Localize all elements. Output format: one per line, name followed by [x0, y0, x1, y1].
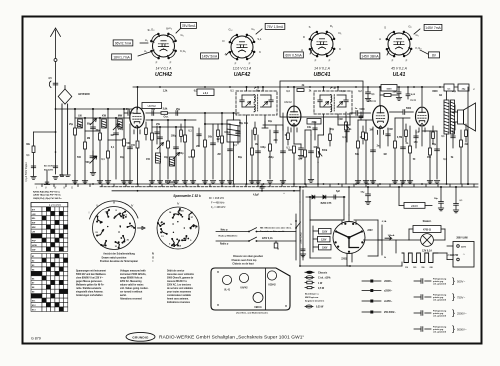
volume potentiometer P1 — [317, 135, 328, 185]
antenna coupling coil L1 — [58, 86, 90, 177]
svg-text:18V/1,7mA: 18V/1,7mA — [113, 55, 130, 59]
svg-text:S: S — [309, 25, 311, 29]
title banner — [126, 332, 304, 341]
IF stage shield can — [280, 81, 363, 117]
svg-text:125: 125 — [413, 267, 416, 269]
svg-text:Radio ⌀: Radio ⌀ — [220, 243, 229, 246]
input filter wiring — [75, 109, 130, 184]
tube U3 UBC41 top view — [301, 24, 341, 78]
tube U2 UAF42 top view — [222, 27, 262, 78]
svg-text:L(KW) TA(L) U(a) PhF TW Ou: L(KW) TA(L) U(a) PhF TW Ou — [33, 194, 62, 197]
U4 cathode voltage label — [420, 50, 440, 58]
svg-text:D: D — [303, 35, 305, 39]
ground rail junctions — [42, 183, 474, 187]
selector top feed — [348, 186, 350, 215]
svg-text:14 V 0,1 A: 14 V 0,1 A — [314, 67, 330, 71]
svg-text:4,7k: 4,7k — [77, 125, 82, 128]
svg-text:G₁: G₁ — [180, 33, 183, 37]
svg-text:78V/3mA: 78V/3mA — [182, 24, 196, 28]
svg-text:1M: 1M — [255, 143, 258, 146]
svg-text:Ansicht der Schalterstellung: Ansicht der Schalterstellung — [103, 253, 135, 256]
mains switch S3 — [216, 228, 296, 248]
svg-text:RADIO-WERKE GmbH Schaltplan „: RADIO-WERKE GmbH Schaltplan „Sechskreis … — [159, 335, 304, 341]
svg-text:100mA: 100mA — [388, 234, 395, 237]
svg-text:4,5μF: 4,5μF — [253, 194, 260, 197]
svg-text:750V∼: 750V∼ — [457, 295, 466, 299]
tube U1 UCH42 top view — [144, 26, 186, 78]
svg-text:A₂: A₂ — [145, 38, 148, 42]
svg-text:UCH42: UCH42 — [155, 72, 172, 78]
svg-text:condensateur variable: condensateur variable — [167, 294, 192, 297]
legend resistor symbols — [305, 271, 331, 290]
svg-text:UAF42: UAF42 — [234, 72, 251, 78]
svg-text:A: A — [225, 52, 227, 56]
IF transformer F II — [314, 86, 352, 135]
svg-text:110: 110 — [405, 267, 408, 269]
IF transformer F I — [236, 86, 283, 184]
svg-text:4700 Ω: 4700 Ω — [423, 229, 431, 232]
svg-text:1M: 1M — [110, 134, 113, 137]
svg-text:Anderungen vorbehalten: Anderungen vorbehalten — [76, 294, 103, 297]
oscillator coil box L5 — [227, 112, 249, 184]
svg-text:150p: 150p — [118, 128, 124, 131]
heater dropping resistor R30 — [402, 253, 459, 269]
AVC line (dashed) — [100, 186, 307, 188]
selector extra labels — [378, 220, 387, 259]
svg-text:volt. Values going conden-: volt. Values going conden- — [120, 287, 149, 290]
V3 grid coupling capacitor C20 — [338, 109, 371, 125]
svg-text:5000: 5000 — [406, 108, 412, 110]
svg-text:UBC41: UBC41 — [313, 72, 330, 78]
svg-text:100p: 100p — [224, 131, 230, 134]
note paragraph French — [167, 270, 195, 305]
svg-text:F: F — [406, 59, 408, 63]
U1 screen voltage label — [113, 40, 148, 46]
output tube V4 UL41 — [410, 86, 429, 146]
coupling note — [173, 194, 201, 198]
svg-text:}: } — [452, 308, 455, 318]
svg-text:0,5M: 0,5M — [337, 119, 342, 121]
svg-text:8000: 8000 — [432, 91, 438, 93]
svg-text:sek. gewickelt: sek. gewickelt — [433, 298, 446, 301]
svg-text:110V: 110V — [322, 232, 328, 234]
svg-text:F: F — [249, 62, 251, 66]
antenna lower wiring — [53, 108, 58, 179]
scale lamp La1 — [409, 221, 469, 253]
chassis note — [236, 312, 269, 315]
svg-text:5000V∼: 5000V∼ — [457, 327, 468, 331]
svg-text:Angaben beachten: Angaben beachten — [305, 299, 325, 302]
antenna — [48, 28, 60, 109]
svg-text:sek. gewickelt: sek. gewickelt — [433, 314, 446, 317]
svg-text:240V: 240V — [411, 204, 418, 208]
svg-text:Spannweite Σ 52 k: Spannweite Σ 52 k — [173, 194, 201, 198]
svg-text:2M: 2M — [217, 154, 220, 156]
svg-text:145V 38mA: 145V 38mA — [361, 54, 379, 58]
svg-text:Chassis: Chassis — [318, 272, 328, 275]
svg-text:145V 7mA: 145V 7mA — [425, 26, 441, 30]
svg-text:L/M: L/M — [32, 214, 36, 216]
series capacitor C14 — [176, 108, 181, 115]
svg-text:45 V 0,1 A: 45 V 0,1 A — [391, 67, 407, 71]
svg-text:3Ω: 3Ω — [464, 144, 467, 146]
svg-text:5000 Ω/V und den Meßberei-: 5000 Ω/V und den Meßberei- — [76, 273, 106, 276]
svg-text:de service sont valables: de service sont valables — [167, 287, 194, 290]
AF tube V3 UBC41 — [368, 86, 388, 148]
svg-text:pour toutes moyennes: pour toutes moyennes — [167, 291, 192, 294]
svg-text:Buntkörper u.: Buntkörper u. — [305, 293, 319, 296]
svg-text:A: A — [379, 37, 381, 41]
svg-text:250p: 250p — [268, 157, 274, 159]
coupling cap label — [283, 192, 285, 195]
svg-text:20p: 20p — [330, 129, 335, 131]
svg-text:Drawn switch position: Drawn switch position — [102, 256, 127, 259]
svg-text:220V 0,1A: 220V 0,1A — [262, 237, 273, 240]
svg-text:50μ: 50μ — [361, 192, 365, 194]
grid line left — [56, 108, 134, 110]
svg-text:80p: 80p — [238, 157, 243, 159]
svg-text:14 V 0,1 A: 14 V 0,1 A — [156, 67, 172, 71]
svg-text:G₂: G₂ — [408, 25, 411, 29]
svg-text:Osz.: Osz. — [163, 116, 168, 119]
V4 cathode and grid components — [392, 118, 445, 184]
svg-text:ser turned in without: ser turned in without — [120, 291, 143, 294]
svg-text:250-500V–: 250-500V– — [384, 311, 396, 314]
svg-text:25k: 25k — [156, 123, 161, 126]
mid band auxiliary components — [145, 122, 468, 148]
decoupling capacitor C26 — [396, 86, 401, 100]
svg-text:}: } — [452, 276, 455, 286]
svg-text:G₃: G₃ — [251, 27, 254, 31]
tone corrector box — [381, 85, 397, 92]
svg-text:F: F — [156, 61, 158, 65]
svg-text:MM Papierca.: MM Papierca. — [305, 297, 319, 299]
svg-text:F: F — [392, 59, 394, 63]
HT feed wire — [467, 87, 469, 185]
svg-text:S,1: S,1 — [257, 37, 262, 41]
voltage selector S4 — [313, 215, 373, 261]
V2 grid wire — [263, 125, 283, 130]
dropper wires — [398, 186, 432, 205]
mixer tube V1 UCH42 — [130, 86, 162, 140]
heater bus line — [112, 187, 300, 192]
svg-text:UL41: UL41 — [410, 99, 417, 102]
svg-text:values valid for mains: values valid for mains — [120, 284, 144, 287]
V1 grid capacitor C11 — [124, 109, 134, 115]
svg-text:4Ω: 4Ω — [439, 94, 442, 97]
HT decoupling C25 — [365, 87, 375, 101]
svg-text:IV: IV — [63, 186, 66, 190]
dropper label box — [404, 203, 425, 209]
left vertical wire — [44, 170, 49, 185]
V1 cathode resistor R5 — [131, 141, 139, 184]
svg-text:IV: IV — [131, 204, 134, 208]
wafer switch S1 front view — [89, 201, 145, 250]
svg-text:Netz ⌀: Netz ⌀ — [221, 229, 228, 232]
mains on-off switch S5 — [290, 214, 300, 260]
svg-text:Spannungen mit Instrument: Spannungen mit Instrument — [76, 270, 106, 273]
svg-text:96V/2,7mA: 96V/2,7mA — [115, 41, 132, 45]
svg-text:NB: GW-Geräte stets über ehem.: NB: GW-Geräte stets über ehem. — [260, 227, 292, 230]
band switch contact table — [31, 203, 68, 312]
svg-text:1,2k: 1,2k — [163, 91, 168, 93]
svg-text:220V AC. Measuring: 220V AC. Measuring — [120, 280, 142, 283]
V2 grid circuit components — [249, 130, 290, 184]
svg-text:D: D — [222, 39, 224, 43]
U2 diode voltage label — [201, 52, 229, 59]
svg-text:0,7M: 0,7M — [397, 136, 402, 139]
svg-text:O: O — [71, 186, 73, 190]
svg-text:chen 800/80 V bei 220 V∼: chen 800/80 V bei 220 V∼ — [76, 278, 103, 280]
loudspeaker LS1 — [453, 103, 476, 131]
svg-text:Châssis vu de haut: Châssis vu de haut — [232, 263, 253, 266]
svg-text:eingestellt ohne Antenne.: eingestellt ohne Antenne. — [76, 291, 104, 294]
svg-text:1M: 1M — [383, 154, 386, 156]
svg-text:UL 41: UL 41 — [224, 289, 231, 292]
tuning capacitor C10 — [86, 151, 97, 175]
svg-text:mesure 800-80 V à: mesure 800-80 V à — [167, 280, 187, 283]
anode label box — [197, 89, 214, 96]
svg-text:K,G₃: K,G₃ — [416, 46, 422, 50]
svg-text:30p: 30p — [95, 129, 100, 132]
svg-text:UAF42: UAF42 — [284, 101, 292, 104]
svg-text:0,25 W: 0,25 W — [316, 307, 324, 309]
svg-text:UBC41: UBC41 — [254, 306, 262, 309]
svg-text:30p: 30p — [268, 121, 273, 123]
detector diode load parts — [307, 108, 363, 124]
svg-text:1 2 3 4 5 6: 1 2 3 4 5 6 — [49, 204, 61, 207]
svg-text:150V: 150V — [322, 248, 328, 250]
svg-text:0,1μF 500V Papier: 0,1μF 500V Papier — [25, 162, 28, 181]
filter capacitor C31 — [434, 186, 444, 211]
svg-text:ohne Netz- und Skalenbeleucht.: ohne Netz- und Skalenbeleucht. — [236, 312, 269, 315]
power left rotated note — [301, 232, 303, 243]
power section left wires — [299, 202, 351, 267]
svg-text:58p: 58p — [239, 123, 244, 125]
svg-text:300k: 300k — [311, 122, 317, 124]
svg-text:30p: 30p — [120, 157, 125, 159]
svg-text:220: 220 — [430, 267, 433, 269]
V1 anode coupling wire — [146, 112, 239, 114]
svg-text:IV: IV — [177, 202, 180, 206]
input filter components — [72, 108, 132, 184]
svg-text:≥125V–: ≥125V– — [384, 300, 393, 303]
rectifier feed wires — [299, 186, 344, 260]
U4 screen voltage label — [360, 51, 389, 59]
svg-text:reihe. Stattdessenwerte: reihe. Stattdessenwerte — [76, 287, 102, 290]
decoupling capacitor C27 — [406, 86, 416, 99]
svg-text:0,1A: 0,1A — [382, 220, 387, 223]
screen feed resistor R22 — [380, 92, 398, 97]
HT rail junction dots — [159, 86, 441, 88]
svg-text:145V 5mA: 145V 5mA — [202, 54, 218, 58]
svg-text:D₁: D₁ — [339, 31, 342, 35]
svg-text:50p: 50p — [126, 109, 131, 111]
svg-text:a 0,1: a 0,1 — [203, 93, 209, 95]
svg-text:G,₂: G,₂ — [228, 28, 232, 32]
svg-text:0,5 W: 0,5 W — [318, 288, 325, 290]
svg-text:230V 120Ω: 230V 120Ω — [301, 232, 303, 243]
svg-text:25p: 25p — [462, 88, 466, 90]
svg-text:GW(M) Ph(L) D(a) PhC AM Zu: GW(M) Ph(L) D(a) PhC AM Zu — [33, 197, 62, 200]
svg-text:GRUNDIG: GRUNDIG — [132, 335, 149, 339]
svg-text:180p: 180p — [171, 135, 177, 138]
wafer switch S2 rear view — [157, 202, 199, 250]
svg-text:Chassis von oben gesehen: Chassis von oben gesehen — [233, 256, 264, 258]
mains bus upper — [300, 186, 478, 188]
svg-text:220Ω: 220Ω — [341, 259, 347, 261]
mains plug box — [447, 242, 474, 268]
svg-text:G 879: G 879 — [31, 337, 41, 341]
svg-text:500k: 500k — [322, 149, 328, 152]
V4 coupling capacitor C22 — [390, 108, 414, 114]
V3 grid leak components — [355, 120, 380, 184]
U1 anode voltage label — [176, 22, 196, 33]
svg-text:5μF: 5μF — [336, 191, 341, 193]
svg-text:220V AC. Les tensions: 220V AC. Les tensions — [167, 284, 192, 287]
svg-text:1M: 1M — [369, 129, 372, 132]
chassis caption — [232, 256, 264, 266]
svg-text:Voltages measured with: Voltages measured with — [120, 270, 146, 273]
svg-text:5000: 5000 — [387, 89, 393, 91]
svg-text:75V 1,5mA: 75V 1,5mA — [267, 25, 284, 29]
input filter value labels — [69, 115, 131, 150]
filter capacitor C32 — [453, 186, 463, 213]
svg-text:Σ 4,5kΩC: Σ 4,5kΩC — [165, 181, 175, 184]
heater bus capacitor C35 — [253, 184, 264, 197]
svg-text:50μ: 50μ — [434, 198, 438, 200]
svg-text:C tol. ±10%: C tol. ±10% — [318, 277, 331, 280]
svg-text:III: III — [113, 201, 115, 205]
svg-text:Indications réservées: Indications réservées — [167, 301, 191, 304]
note paragraph English — [120, 270, 149, 301]
svg-text:Bei 110V: Bei 110V — [44, 166, 54, 168]
svg-text:B250 C75: B250 C75 — [321, 202, 332, 205]
svg-text:O: O — [152, 257, 154, 259]
svg-text:G₁: G₁ — [415, 33, 418, 37]
selector to lamp wire — [364, 234, 410, 240]
svg-text:ΣF = 468 kHz: ΣF = 468 kHz — [209, 197, 225, 200]
document number — [31, 337, 41, 341]
svg-text:}: } — [452, 292, 455, 302]
antenna shunt stack — [26, 131, 56, 179]
svg-text:MW: MW — [118, 115, 123, 118]
selector frame — [310, 220, 378, 258]
svg-text:UKW: UKW — [32, 245, 37, 247]
svg-text:ANT/FERR: ANT/FERR — [78, 93, 90, 96]
svg-text:5000: 5000 — [359, 109, 365, 111]
midband value labels — [60, 91, 457, 178]
tube U4 UL41 top view — [379, 25, 421, 79]
legend note — [305, 293, 325, 309]
negative feedback resistor R20 — [460, 130, 468, 184]
svg-text:sek. gewickelt: sek. gewickelt — [433, 330, 446, 333]
svg-text:40p: 40p — [164, 156, 169, 159]
left margin vertical note — [25, 162, 28, 181]
svg-text:GW: GW — [32, 249, 36, 251]
svg-text:MW: MW — [32, 227, 36, 229]
svg-text:F₂ = 468 kHz: F₂ = 468 kHz — [211, 206, 226, 209]
svg-text:150: 150 — [421, 267, 424, 269]
svg-text:Position dessinée de l'interru: Position dessinée de l'interrupteur — [100, 260, 138, 263]
output fuse boxes — [444, 84, 475, 91]
oscillator coil and components — [146, 116, 201, 185]
svg-text:220V: 220V — [461, 247, 467, 249]
svg-text:F = 468 kHz: F = 468 kHz — [211, 202, 225, 205]
svg-text:50p: 50p — [180, 153, 185, 155]
legend voltage column — [362, 280, 396, 315]
svg-text:58p: 58p — [151, 108, 156, 111]
tone control pot P2 — [337, 112, 349, 184]
HT decoupling R21 — [297, 84, 305, 91]
output transformer Tr1 — [439, 86, 455, 184]
svg-text:F: F — [235, 62, 237, 66]
svg-text:Meßwerte gelten für Ni-Fe-: Meßwerte gelten für Ni-Fe- — [76, 284, 105, 287]
svg-text:Chassis seen from top: Chassis seen from top — [232, 259, 258, 262]
svg-text:60V 0,5mA: 60V 0,5mA — [285, 53, 302, 57]
U1 oscillator voltage label — [112, 52, 150, 60]
svg-text:Radio ⌀ MΩ-Werte: Radio ⌀ MΩ-Werte — [219, 234, 239, 237]
svg-text:100p: 100p — [260, 146, 266, 149]
svg-text:mesurées avec voltmètre: mesurées avec voltmètre — [167, 273, 195, 276]
svg-text:25p: 25p — [69, 123, 74, 126]
chassis net label — [165, 181, 175, 184]
U2 anode voltage label — [256, 23, 285, 34]
svg-text:2500V∼: 2500V∼ — [457, 311, 468, 315]
svg-text:K: K — [259, 50, 261, 54]
svg-text:12V 0,1A: 12V 0,1A — [422, 250, 432, 253]
mains switch note — [260, 227, 292, 251]
chassis top view — [211, 268, 290, 310]
svg-text:≥250V–: ≥250V– — [384, 290, 393, 293]
svg-text:aerial.: aerial. — [120, 294, 127, 297]
svg-text:F: F — [315, 59, 317, 63]
svg-text:III: III — [54, 186, 56, 190]
svg-text:Bei 220V: Bei 220V — [44, 169, 54, 171]
svg-text:instrument 5000 Ω/Volts,: instrument 5000 Ω/Volts, — [120, 273, 147, 276]
svg-text:KW: KW — [32, 223, 36, 225]
mains note small — [44, 166, 54, 172]
AVC filter components — [202, 113, 237, 184]
band table header — [33, 186, 73, 200]
U4 anode voltage label — [414, 24, 442, 34]
svg-text:Alterations reserved: Alterations reserved — [120, 298, 142, 301]
svg-text:K(KW) Rd(I) M(a) PhF TA Cu: K(KW) Rd(I) M(a) PhF TA Cu — [33, 190, 61, 193]
svg-text:F: F — [329, 59, 331, 63]
rectifier top frame — [310, 219, 344, 221]
V2 cathode components — [288, 144, 304, 184]
HT supply rail — [133, 86, 468, 88]
svg-text:LW: LW — [32, 232, 35, 234]
svg-text:UBC41: UBC41 — [368, 100, 377, 103]
svg-text:12,6 V 0,1 A: 12,6 V 0,1 A — [233, 67, 252, 71]
svg-text:Débit de service: Débit de service — [167, 270, 185, 273]
svg-text:≥500V–: ≥500V– — [384, 280, 393, 283]
heater wire — [347, 240, 402, 266]
svg-text:Skalenl.: Skalenl. — [423, 221, 432, 223]
svg-text:220V: 220V — [367, 230, 373, 232]
svg-text:sek. gewickelt: sek. gewickelt — [433, 282, 446, 285]
detector load components — [304, 126, 320, 184]
svg-text:g₂m₄: g₂m₄ — [166, 26, 173, 30]
svg-text:80p: 80p — [87, 123, 92, 126]
svg-text:UAF42: UAF42 — [240, 287, 248, 290]
svg-text:50k: 50k — [208, 136, 213, 139]
svg-text:∼: ∼ — [463, 252, 466, 256]
svg-text:5000 Ohms/V, gamme de: 5000 Ohms/V, gamme de — [167, 278, 194, 280]
svg-text:K: K — [339, 47, 341, 51]
svg-text:A: A — [301, 48, 303, 52]
